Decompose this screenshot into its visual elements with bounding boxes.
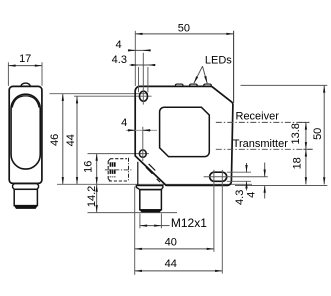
- LEDs leader right: [203, 66, 208, 83]
- svg-text:LEDs: LEDs: [205, 54, 232, 66]
- svg-text:40: 40: [165, 236, 177, 248]
- LED bump 2: [190, 84, 198, 87]
- wire extension M12 left: [139, 214, 141, 229]
- hidden connector center line: [105, 169, 131, 171]
- connector collar front view: [136, 186, 163, 190]
- wire extension line 17 right: [41, 62, 43, 86]
- slot top extension: [227, 171, 251, 173]
- lens inner arc: [12, 96, 39, 108]
- svg-text:4.3: 4.3: [234, 190, 246, 205]
- dimension 50 right: [323, 85, 325, 184]
- dimension 14.2: [96, 185, 98, 213]
- connector collar side view: [13, 184, 39, 190]
- connector barrel front view: [140, 190, 162, 210]
- wire extension line 17 left: [7, 62, 9, 86]
- dimension 46: [62, 94, 64, 185]
- svg-text:Receiver: Receiver: [236, 110, 280, 122]
- wire extension M12 right: [160, 214, 162, 229]
- wire extension 16 top: [88, 153, 149, 155]
- chamfer hatch tick 2: [146, 167, 153, 174]
- dimension 4.3 top: [130, 64, 156, 66]
- dimension M12x1: [140, 225, 162, 227]
- transmitter axis dash-dot: [216, 148, 313, 150]
- chamfer edge line: [137, 162, 139, 186]
- LED bump 3: [204, 84, 212, 87]
- lens window front: [160, 107, 210, 156]
- dimension 44 bottom: [135, 270, 223, 272]
- receiver axis dash-dot: [216, 121, 309, 123]
- wire extension 14.2 bottom: [88, 212, 178, 214]
- wire extension 50 left: [134, 31, 136, 86]
- wire extension 50 right: [233, 31, 235, 103]
- svg-text:M12x1: M12x1: [171, 216, 207, 230]
- dimension 17: [8, 65, 42, 67]
- mounting slot: [210, 172, 227, 181]
- svg-text:16: 16: [83, 161, 95, 173]
- mounting hole bottom: [139, 150, 146, 157]
- hole bottom center line vertical: [142, 127, 144, 161]
- svg-text:13.8: 13.8: [290, 123, 302, 144]
- wire tick transmitter: [303, 148, 312, 150]
- dimension 4.3 slot: [246, 163, 248, 172]
- dimension 18: [305, 149, 307, 184]
- wire extension bottom right: [235, 185, 327, 187]
- mounting hole top: [139, 91, 147, 101]
- wire extension bottom common: [57, 183, 252, 185]
- dimension 44: [76, 96, 78, 184]
- dimension 40: [135, 248, 214, 250]
- slot bottom extension: [227, 180, 251, 182]
- svg-text:18: 18: [292, 157, 304, 169]
- wire extension 44 right: [221, 170, 223, 274]
- chamfer hatch tick 3: [157, 179, 160, 182]
- dimension 4 mid: [126, 129, 157, 131]
- svg-text:4: 4: [121, 117, 127, 129]
- sensor housing front view: [135, 86, 233, 185]
- wire extension hole left: [138, 67, 140, 92]
- wire extension 46 top: [50, 93, 148, 95]
- connector thread band: [14, 205, 37, 209]
- svg-text:4: 4: [246, 192, 258, 198]
- sensor housing side view: [9, 86, 42, 183]
- dimension 16: [96, 154, 98, 185]
- svg-text:44: 44: [65, 134, 77, 146]
- wire extension hole right: [147, 67, 149, 92]
- dimension 50 top: [135, 33, 233, 35]
- wire tick receiver: [299, 121, 310, 123]
- slot center extension: [204, 176, 268, 178]
- svg-text:17: 17: [19, 53, 31, 65]
- LEDs leader left: [194, 66, 203, 83]
- svg-text:14.2: 14.2: [86, 186, 98, 207]
- hidden connector outline: [108, 159, 128, 181]
- svg-text:44: 44: [165, 258, 177, 270]
- dimension 4 top: [128, 49, 151, 51]
- wire extension 50 right top: [241, 84, 328, 86]
- hidden connector right edge dash-dot: [128, 158, 130, 182]
- svg-text:46: 46: [49, 134, 61, 146]
- svg-text:Transmitter: Transmitter: [233, 138, 289, 150]
- dimension 13.8: [305, 122, 307, 149]
- chamfer hatch tick 1: [149, 164, 156, 171]
- connector barrel side view: [14, 189, 37, 205]
- lens window stadium: [11, 94, 40, 169]
- connector thread band front: [140, 210, 161, 213]
- svg-text:4: 4: [116, 39, 122, 51]
- dome bump on housing top: [21, 83, 30, 86]
- wire extension 40/44 left: [134, 187, 136, 275]
- svg-text:50: 50: [312, 128, 324, 140]
- wire extension 44 top: [74, 95, 152, 97]
- svg-text:50: 50: [178, 22, 190, 34]
- LED bump 1: [175, 84, 183, 87]
- hidden connector thread marks: [109, 162, 111, 177]
- wire extension 40 right: [213, 170, 215, 252]
- dimension 4 slot: [264, 163, 266, 177]
- hole top center line vertical: [142, 53, 144, 105]
- svg-text:4.3: 4.3: [112, 54, 127, 66]
